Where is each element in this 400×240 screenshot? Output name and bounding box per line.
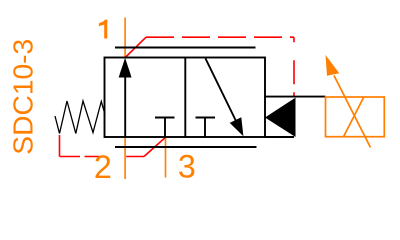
svg-text:3: 3	[178, 148, 196, 184]
svg-text:SDC10-3: SDC10-3	[6, 39, 38, 155]
svg-text:2: 2	[94, 149, 112, 185]
